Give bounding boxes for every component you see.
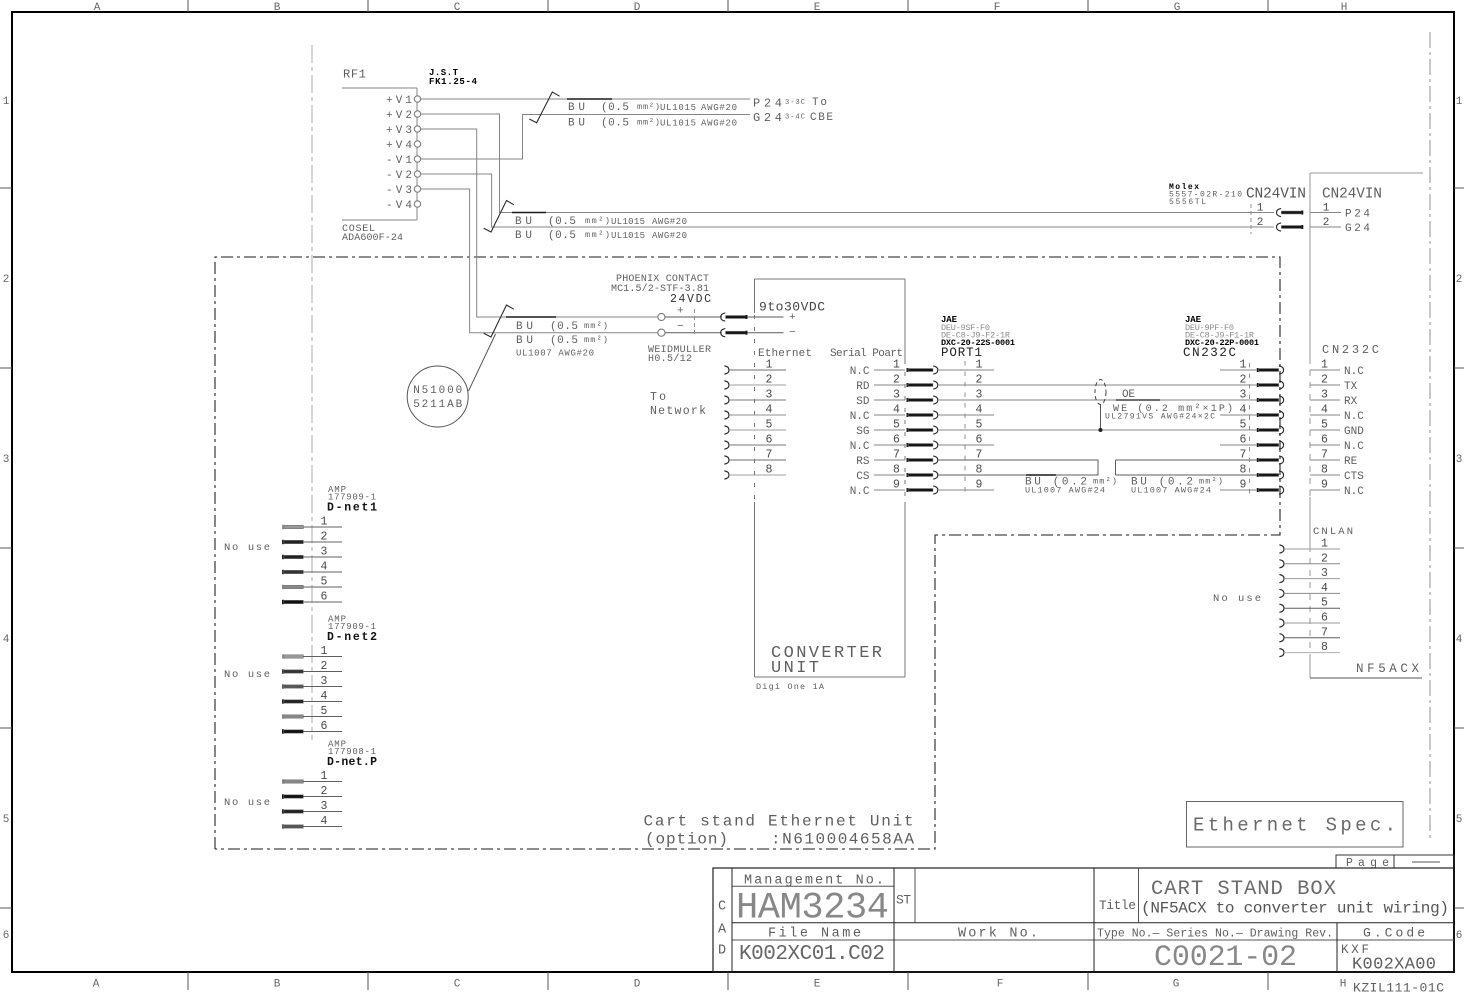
svg-text:(0.5: (0.5 (548, 230, 576, 242)
wire label BU (0.5 mm2) UL1015 AWG#20 line1 (568, 102, 737, 114)
caption Cart stand Ethernet Unit (option) N610004658AA (644, 813, 915, 849)
svg-text:5211AB: 5211AB (413, 399, 462, 411)
svg-text:N.C: N.C (1344, 486, 1364, 498)
converter unit enclosure box (755, 279, 906, 677)
grid column letters top (94, 2, 1348, 14)
wire -V2 to CN24VIN pin2 (421, 174, 1274, 227)
svg-text:1: 1 (321, 770, 328, 783)
svg-text:6: 6 (321, 720, 328, 733)
svg-text:C: C (454, 2, 461, 14)
svg-text:3-3C: 3-3C (785, 99, 805, 107)
svg-text:1: 1 (321, 645, 328, 658)
svg-text:(0.5: (0.5 (550, 321, 578, 333)
label To Network (650, 391, 706, 418)
svg-text:P24: P24 (1345, 209, 1370, 221)
svg-text:N.C: N.C (1344, 441, 1364, 453)
svg-text:1: 1 (1321, 538, 1328, 551)
svg-text:UL1015: UL1015 (611, 217, 645, 227)
svg-text:BU: BU (568, 102, 585, 114)
svg-text:5: 5 (766, 419, 773, 432)
svg-text::N610004658AA: :N610004658AA (771, 831, 914, 849)
grid reference ticks top/bottom (188, 0, 1268, 990)
svg-text:1: 1 (766, 359, 773, 372)
svg-text:6: 6 (893, 434, 900, 447)
svg-text:No use: No use (224, 669, 270, 681)
svg-text:7: 7 (1240, 449, 1247, 462)
svg-text:2: 2 (766, 374, 773, 387)
wire +V2 to CN24VIN pin1 (421, 114, 1274, 213)
svg-text:2: 2 (893, 374, 900, 387)
svg-text:2: 2 (3, 274, 10, 286)
svg-text:H: H (1341, 2, 1348, 14)
wire PORT1-6 stub (938, 444, 994, 446)
svg-text:N.C: N.C (1344, 366, 1364, 378)
svg-text:File Name: File Name (768, 927, 861, 942)
svg-text:3: 3 (321, 800, 328, 813)
svg-text:8: 8 (766, 464, 773, 477)
svg-text:G: G (1173, 979, 1180, 991)
svg-text:TX: TX (1344, 381, 1358, 393)
wire +V1 to P24 (421, 98, 750, 100)
svg-text:UL1015: UL1015 (660, 119, 696, 129)
svg-text:RE: RE (1344, 456, 1358, 468)
svg-text:K002XA00: K002XA00 (1352, 956, 1436, 975)
terminal label WEIDMULLER H0.5/12 (648, 345, 711, 365)
svg-text:G24: G24 (1345, 223, 1370, 235)
svg-text:GND: GND (1344, 426, 1364, 438)
svg-text:-V3: -V3 (386, 185, 412, 197)
twisted pair symbol OE/WE (1095, 380, 1106, 405)
svg-text:UL1015: UL1015 (660, 103, 696, 113)
svg-text:CN232C: CN232C (1183, 346, 1236, 360)
svg-text:B: B (274, 2, 281, 14)
svg-text:RS: RS (856, 456, 870, 468)
svg-text:CN24VIN: CN24VIN (1322, 187, 1382, 203)
net label G24 3-4C CBE (753, 111, 833, 125)
svg-text:+V3: +V3 (386, 125, 412, 137)
svg-text:AWG#20: AWG#20 (701, 119, 737, 129)
svg-text:A: A (93, 979, 100, 991)
shield drain to SG junction (1099, 405, 1103, 433)
svg-text:CBE: CBE (810, 112, 833, 124)
svg-text:mm²): mm²) (584, 321, 608, 331)
svg-text:CN24VIN: CN24VIN (1246, 187, 1306, 203)
svg-text:3: 3 (1321, 567, 1328, 580)
title block Type No. Series No. Drawing Rev. (1097, 928, 1333, 976)
PORT1 pin column dashed separator (964, 361, 966, 496)
svg-text:2: 2 (1456, 274, 1463, 286)
svg-text:+V1: +V1 (386, 95, 412, 107)
24VDC polarity separator dashed (694, 309, 696, 337)
svg-text:UNIT: UNIT (771, 659, 819, 678)
wire label BU (0.5 mm2) on minus wire (516, 335, 608, 347)
svg-text:-V2: -V2 (386, 170, 412, 182)
svg-text:Title: Title (1099, 898, 1136, 913)
svg-text:CTS: CTS (1344, 471, 1364, 483)
CN24VIN pin 2 contact (1257, 217, 1304, 231)
terminal block PHOENIX CONTACT MC1.5/2-STF-3.81 label (611, 274, 709, 295)
svg-text:24VDC: 24VDC (670, 293, 711, 306)
wire -V1 to G24 (421, 115, 750, 160)
svg-text:-V1: -V1 (386, 155, 412, 167)
connector D-net.P maker label AMP 177908-1 (328, 740, 376, 758)
svg-text:Ethernet Spec.: Ethernet Spec. (1193, 815, 1396, 837)
svg-text:D: D (634, 979, 641, 991)
svg-text:AWG#20: AWG#20 (701, 103, 737, 113)
svg-text:N51000: N51000 (413, 385, 462, 397)
cable jog symbol on P24/G24 pair (529, 92, 559, 123)
title block File Name K002XC01.C02 (739, 927, 885, 967)
grid row numbers left (3, 96, 10, 942)
svg-text:4: 4 (321, 561, 328, 574)
svg-text:G.Code: G.Code (1363, 926, 1425, 941)
svg-text:1: 1 (1456, 96, 1463, 108)
CN232C pin separator dashed (1249, 363, 1251, 494)
svg-text:H: H (1340, 979, 1347, 991)
svg-text:RF1: RF1 (343, 68, 366, 82)
svg-text:UL1015: UL1015 (611, 231, 645, 241)
wire PORT1-7 RS-CS loopback (938, 460, 1098, 475)
svg-text:N.C: N.C (850, 411, 870, 423)
svg-text:K002XC01.C02: K002XC01.C02 (739, 943, 885, 966)
svg-text:CS: CS (856, 471, 870, 483)
svg-text:4: 4 (321, 815, 328, 828)
svg-text:3: 3 (766, 389, 773, 402)
svg-text:Digi One 1A: Digi One 1A (756, 682, 825, 692)
svg-text:1: 1 (3, 96, 10, 108)
svg-text:-V4: -V4 (386, 200, 412, 212)
svg-text:8: 8 (1240, 464, 1247, 477)
title block Title CART STAND BOX (1099, 878, 1449, 918)
svg-text:(NF5ACX to converter unit wiri: (NF5ACX to converter unit wiring) (1141, 900, 1449, 918)
wire +V3 to 24VDC plus terminal (421, 129, 658, 317)
svg-text:mm²): mm²) (584, 335, 608, 345)
svg-text:UL1007 AWG#20: UL1007 AWG#20 (516, 349, 594, 359)
svg-text:8: 8 (1321, 641, 1328, 654)
svg-text:No use: No use (1213, 593, 1261, 605)
wire PORT1-4 stub (938, 414, 994, 416)
svg-text:(0.5: (0.5 (548, 216, 576, 228)
svg-text:2: 2 (321, 531, 328, 544)
CN232C stub wires on N.C pins (1220, 370, 1257, 490)
cable label WE (0.2 mm2 x 1P) UL2791VS AWG#24x2C (1105, 403, 1233, 422)
svg-text:BU: BU (516, 335, 533, 347)
svg-text:3: 3 (321, 546, 328, 559)
svg-text:RD: RD (856, 381, 870, 393)
connector RF1 outline bracket (342, 88, 417, 220)
svg-text:mm²): mm²) (585, 230, 610, 240)
title block outline (713, 868, 1454, 972)
svg-text:ST: ST (896, 893, 911, 908)
connector CNLAN pins 1-8 (1279, 538, 1340, 657)
svg-text:2: 2 (321, 785, 328, 798)
title block G.Code KXF K002XA00 (1341, 926, 1436, 975)
svg-text:1: 1 (321, 516, 328, 529)
connector D-net1 maker label AMP 177909-1 (328, 485, 376, 503)
svg-text:(option): (option) (645, 831, 728, 849)
NF5ACX enclosure outline (1310, 173, 1423, 678)
svg-text:Type No.— Series No.— Drawing: Type No.— Series No.— Drawing Rev. (1097, 928, 1333, 941)
svg-text:5: 5 (1321, 597, 1328, 610)
cable label BU (0.2 mm2) UL1007 AWG#24 right (1131, 477, 1223, 496)
option unit dash-dot boundary (215, 257, 1280, 849)
svg-text:6: 6 (1321, 612, 1328, 625)
svg-text:NF5ACX: NF5ACX (1356, 662, 1419, 676)
svg-text:No use: No use (224, 797, 270, 809)
connector PORT1 maker label JAE DXC-20-22S-0001 (941, 315, 1015, 348)
svg-text:4: 4 (893, 404, 900, 417)
svg-text:N.C: N.C (850, 366, 870, 378)
svg-text:CART STAND BOX: CART STAND BOX (1151, 878, 1336, 901)
svg-text:Serial Poart: Serial Poart (830, 348, 903, 360)
svg-text:−: − (677, 321, 684, 333)
wire label BU (0.5 mm2) UL1015 AWG#20 line4 (515, 230, 687, 242)
svg-text:4: 4 (3, 634, 10, 646)
CN232C pin numbers cable side (1240, 359, 1247, 492)
svg-text:KZIL111-01C: KZIL111-01C (1353, 981, 1444, 992)
svg-text:To: To (650, 391, 666, 404)
CN232C unit side pin numbers and signal names (1310, 359, 1364, 499)
svg-text:2: 2 (1240, 374, 1247, 387)
svg-text:6: 6 (1456, 930, 1463, 942)
svg-text:2: 2 (1257, 217, 1264, 229)
svg-text:3: 3 (3, 454, 10, 466)
svg-text:ADA600F-24: ADA600F-24 (342, 233, 403, 244)
svg-text:B: B (274, 979, 281, 991)
24VDC plus terminal (658, 306, 784, 322)
svg-text:5556TL: 5556TL (1169, 198, 1206, 207)
24VDC minus terminal (658, 321, 784, 337)
connector CN24VIN maker label Molex 5557-02R-210 5556TL (1169, 183, 1242, 207)
svg-text:5: 5 (321, 705, 328, 718)
svg-text:4: 4 (321, 690, 328, 703)
svg-text:UL2791VS AWG#24×2C: UL2791VS AWG#24×2C (1105, 413, 1215, 422)
wire colour label OE (1116, 389, 1160, 401)
svg-text:+: + (789, 312, 796, 324)
svg-text:7: 7 (766, 449, 773, 462)
wire PORT1-1 stub (938, 369, 994, 371)
grid row numbers right (1456, 96, 1463, 942)
svg-text:(0.5: (0.5 (601, 102, 629, 114)
svg-text:+V4: +V4 (386, 140, 412, 152)
svg-text:D-net.P: D-net.P (327, 756, 377, 769)
wire -V3 to 24VDC minus terminal (421, 189, 658, 333)
svg-text:(0.5: (0.5 (550, 335, 578, 347)
wire label BU (0.5 mm2) on plus wire (516, 321, 608, 333)
cable jog symbol on 24VDC pair (484, 305, 514, 337)
svg-text:RX: RX (1344, 396, 1358, 408)
connector D-net.P pins (282, 770, 342, 829)
svg-text:4: 4 (1321, 582, 1328, 595)
svg-text:4: 4 (766, 404, 773, 417)
svg-text:+V2: +V2 (386, 110, 412, 122)
svg-text:E: E (814, 979, 821, 991)
svg-text:SD: SD (856, 396, 870, 408)
balloon N51000 5211AB (407, 334, 495, 427)
wire label BU (0.5 mm2) UL1015 AWG#20 line2 (568, 118, 737, 130)
svg-text:AWG#20: AWG#20 (652, 231, 687, 241)
wire PORT1-2 to CN232C-2 (938, 384, 1257, 386)
svg-text:H0.5/12: H0.5/12 (648, 353, 692, 365)
cable jog symbol on CN24VIN pair (484, 201, 514, 233)
svg-text:To: To (812, 97, 827, 109)
svg-text:MC1.5/2-STF-3.81: MC1.5/2-STF-3.81 (611, 283, 709, 295)
svg-text:G: G (1174, 2, 1181, 14)
svg-text:P24: P24 (753, 97, 782, 111)
svg-text:C0021-02: C0021-02 (1154, 941, 1297, 975)
svg-text:CNLAN: CNLAN (1313, 526, 1353, 538)
svg-text:BU: BU (515, 230, 532, 242)
svg-text:D: D (634, 2, 641, 14)
wire label BU (0.5 mm2) UL1015 AWG#20 line3 (515, 216, 687, 228)
svg-text:5: 5 (321, 576, 328, 589)
svg-text:5: 5 (3, 814, 10, 826)
svg-text:7: 7 (893, 449, 900, 462)
connector CN232C maker label JAE DXC-20-22P-0001 (1185, 315, 1259, 348)
CN24VIN pin number separator dashed (1250, 204, 1252, 234)
page number box (1336, 855, 1454, 870)
svg-text:D-net1: D-net1 (327, 502, 377, 515)
svg-text:BU: BU (568, 118, 585, 130)
connector RF1 maker label COSEL ADA600F-24 (342, 224, 403, 244)
svg-text:mm²): mm²) (637, 102, 660, 112)
svg-text:1: 1 (1257, 203, 1264, 215)
svg-text:F: F (997, 979, 1004, 991)
svg-text:CN232C: CN232C (1322, 343, 1379, 357)
svg-text:SG: SG (856, 426, 869, 438)
svg-text:No use: No use (224, 542, 270, 554)
svg-text:A: A (718, 923, 727, 938)
svg-text:5: 5 (1456, 814, 1463, 826)
svg-text:2: 2 (1321, 552, 1328, 565)
svg-text:Cart stand Ethernet Unit: Cart stand Ethernet Unit (644, 813, 914, 831)
connector D-net2 maker label AMP 177909-1 (328, 615, 376, 633)
svg-text:Network: Network (650, 405, 706, 418)
svg-text:3: 3 (893, 389, 900, 402)
svg-text:6: 6 (766, 434, 773, 447)
svg-text:C: C (454, 979, 461, 991)
wire PORT1-5 to CN232C-5 signal ground (938, 429, 1257, 431)
svg-text:3: 3 (1240, 389, 1247, 402)
svg-text:UL1007 AWG#24: UL1007 AWG#24 (1131, 486, 1211, 496)
connector D-net2 pins (282, 645, 342, 734)
svg-text:2: 2 (321, 660, 328, 673)
svg-text:F: F (994, 2, 1001, 14)
svg-text:1: 1 (893, 359, 900, 372)
svg-text:PORT1: PORT1 (941, 346, 982, 360)
label CONVERTER UNIT (771, 644, 882, 678)
svg-text:G24: G24 (753, 111, 782, 125)
svg-text:+: + (677, 306, 684, 318)
svg-text:N.C: N.C (850, 441, 870, 453)
svg-text:HAM3234: HAM3234 (736, 888, 889, 930)
svg-text:9: 9 (893, 479, 900, 492)
cable label BU (0.2 mm2) UL1007 AWG#24 left (1025, 477, 1117, 496)
svg-text:4: 4 (1456, 634, 1463, 646)
svg-text:BU: BU (515, 216, 532, 228)
svg-text:5: 5 (1240, 419, 1247, 432)
title block CAD letters (718, 900, 727, 959)
svg-text:6: 6 (3, 930, 10, 942)
svg-text:3: 3 (321, 675, 328, 688)
overstrike on CS wire (1026, 474, 1056, 476)
svg-text:AWG#20: AWG#20 (652, 217, 687, 227)
svg-text:7: 7 (1321, 626, 1328, 639)
svg-text:N.C: N.C (850, 486, 870, 498)
wire PORT1-9 stub (938, 489, 994, 491)
Ethernet Spec box (1187, 802, 1404, 848)
svg-text:D: D (718, 944, 726, 959)
svg-text:mm²): mm²) (585, 216, 610, 226)
svg-text:Work No.: Work No. (958, 927, 1038, 942)
converter side crimp contacts to PORT1 (907, 366, 938, 494)
wire CN232C-7 RE-CTS loopback (1116, 459, 1257, 461)
svg-text:A: A (94, 2, 101, 14)
converter serial port pins 1-9 with names (850, 359, 905, 499)
svg-text:8: 8 (893, 464, 900, 477)
svg-text:E: E (814, 2, 821, 14)
terminal type label J.S.T FK1.25-4 (429, 68, 478, 87)
svg-text:3: 3 (1456, 454, 1463, 466)
svg-text:D-net2: D-net2 (327, 631, 377, 644)
wire PORT1-3 to CN232C-3 (938, 399, 1257, 401)
svg-text:N.C: N.C (1344, 411, 1364, 423)
CN24VIN pin 1 contact (1257, 203, 1304, 217)
svg-text:3-4C: 3-4C (785, 114, 805, 122)
grid reference ticks left/right (0, 188, 1464, 908)
CN24VIN unit side pin wires P24 G24 (1310, 203, 1370, 236)
svg-text:C: C (718, 900, 726, 915)
svg-text:UL1007 AWG#24: UL1007 AWG#24 (1025, 486, 1105, 496)
svg-text:−: − (789, 327, 796, 339)
net label P24 3-3C To (753, 97, 827, 111)
connector D-net1 pins (282, 516, 342, 605)
svg-text:6: 6 (321, 591, 328, 604)
PORT1 pin numbers 1-9 (976, 359, 983, 492)
title block Management No. HAM3234 (736, 874, 889, 930)
connector RF1 pins +V1..-V4 (386, 95, 421, 212)
svg-text:BU: BU (516, 321, 533, 333)
light chain centre line at B column (311, 45, 313, 740)
converter Ethernet pins 1-8 (724, 359, 786, 480)
svg-text:(0.5: (0.5 (601, 118, 629, 130)
CN232C crimp contacts (1257, 366, 1284, 494)
svg-text:mm²): mm²) (637, 118, 660, 128)
svg-text:FK1.25-4: FK1.25-4 (429, 77, 478, 87)
page cut chain line right (1429, 32, 1431, 841)
svg-text:5: 5 (893, 419, 900, 432)
svg-text:OE: OE (1122, 389, 1135, 401)
grid column letters bottom (93, 979, 1347, 991)
converter power plus minus pins (789, 312, 796, 339)
